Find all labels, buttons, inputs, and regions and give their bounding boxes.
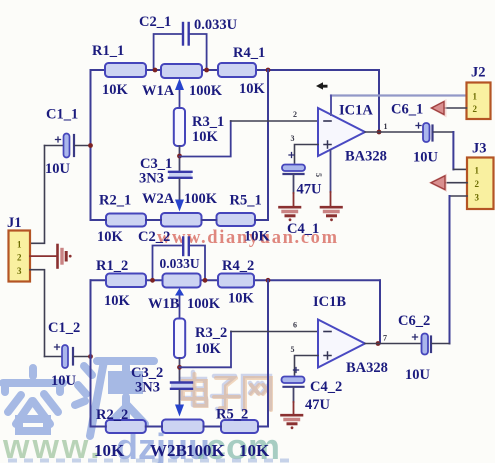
wire input bus channel 2	[90, 280, 92, 426]
svg-text:2: 2	[293, 110, 297, 119]
capacitor C4_2	[282, 368, 343, 414]
potentiometer W1B	[148, 274, 221, 319]
wire J2 pin2 stub	[443, 107, 467, 109]
node junction below R3_1	[177, 154, 182, 159]
wire row2 ch1	[91, 219, 269, 221]
node junction below R3_2	[177, 365, 182, 370]
wire IC1A output to C6_1	[365, 131, 423, 133]
wire row1 ch1	[91, 69, 380, 71]
svg-text:3N3: 3N3	[135, 380, 160, 396]
resistor R4_2	[218, 258, 255, 307]
svg-text:10K: 10K	[94, 441, 125, 460]
wire C3_2 to W2B wiper	[179, 390, 181, 405]
wire feedback vertical ch2	[379, 280, 381, 343]
svg-text:7: 7	[383, 334, 387, 343]
capacitor C2_2	[138, 229, 205, 280]
wire J1 pin3 to C1_2	[30, 270, 45, 357]
svg-text:6: 6	[293, 321, 297, 330]
wire input bus channel 1	[90, 70, 92, 220]
wire inverting input ch1	[180, 121, 319, 157]
ground under C4_1	[280, 207, 301, 221]
potentiometer W2B	[150, 405, 226, 461]
wire feedback column ch2	[267, 280, 269, 426]
node junction C1_1 bus	[88, 143, 93, 148]
svg-text:3: 3	[291, 134, 295, 143]
node junction row1 left	[153, 68, 158, 73]
wire IC1B output to C6_2	[365, 343, 422, 345]
resistor R2_1	[97, 193, 146, 246]
svg-text:W1B: W1B	[148, 296, 180, 312]
svg-text:5: 5	[314, 173, 323, 177]
node junction R4_1 feedback	[266, 68, 271, 73]
wire noninverting input ch2	[295, 356, 319, 376]
svg-text:W1A: W1A	[142, 83, 175, 99]
node junction C1_2 bus	[88, 354, 93, 359]
svg-text:C2_1: C2_1	[139, 14, 171, 30]
power port arrow J2 gnd	[430, 99, 447, 118]
svg-text:C4_1: C4_1	[287, 221, 319, 237]
svg-text:R5_1: R5_1	[230, 193, 262, 209]
resistor R3_1	[174, 108, 224, 146]
node junction IC1B output	[376, 341, 381, 346]
resistor R5_2	[216, 407, 270, 461]
op-amp IC1A	[318, 103, 387, 165]
wire R3_1 to junction and C3_1	[179, 146, 181, 170]
svg-text:3N3: 3N3	[139, 171, 164, 187]
svg-text:1: 1	[17, 240, 22, 250]
power port arrow J3 gnd	[429, 174, 448, 193]
svg-text:0.033U: 0.033U	[160, 256, 200, 271]
capacitor C3_1	[139, 156, 192, 187]
connector J2	[467, 65, 491, 120]
svg-text:10K: 10K	[195, 341, 222, 357]
potentiometer W1A	[142, 64, 223, 108]
svg-text:1: 1	[473, 92, 478, 102]
resistor R5_1	[217, 193, 271, 245]
svg-text:IC1B: IC1B	[313, 294, 346, 310]
wire feedback vertical ch1	[378, 70, 380, 132]
resistor R1_2	[96, 258, 146, 309]
resistor R1_1	[92, 43, 146, 98]
svg-text:5: 5	[291, 345, 295, 354]
svg-text:C4_2: C4_2	[310, 379, 342, 395]
svg-text:100K: 100K	[189, 83, 223, 99]
wire feedback column ch1	[267, 70, 269, 220]
svg-text:47U: 47U	[305, 397, 331, 413]
wire C4_1 to ground	[293, 175, 295, 207]
svg-text:2: 2	[473, 104, 478, 114]
capacitor C4_1	[282, 153, 322, 238]
svg-text:100K: 100K	[186, 441, 226, 460]
node junction row1 right	[204, 68, 209, 73]
svg-text:10K: 10K	[239, 441, 270, 460]
wire C4_2 to ground	[293, 387, 295, 414]
wire R3_2 to junction and C3_2	[179, 358, 181, 381]
svg-text:10K: 10K	[97, 229, 124, 245]
svg-text:W2B: W2B	[150, 441, 187, 460]
svg-text:10U: 10U	[51, 373, 77, 389]
svg-text:C2_2: C2_2	[138, 229, 170, 245]
svg-text:1: 1	[384, 122, 388, 131]
svg-text:10U: 10U	[405, 367, 431, 383]
cursor arrow	[316, 82, 328, 89]
resistor R3_2	[174, 319, 227, 359]
svg-text:J2: J2	[471, 65, 486, 81]
svg-text:10K: 10K	[104, 293, 131, 309]
node junction row1b left	[150, 278, 155, 283]
svg-text:10U: 10U	[45, 161, 71, 177]
wire row2 ch2	[91, 426, 269, 428]
svg-text:R5_2: R5_2	[216, 407, 248, 423]
wire J3 pin3 to C6_2	[450, 196, 468, 344]
wire row1 ch2	[91, 279, 381, 281]
svg-text:W2A: W2A	[142, 191, 175, 207]
svg-text:10K: 10K	[192, 129, 219, 145]
svg-text:R1_2: R1_2	[96, 258, 128, 274]
wire J1 pin1 to C1_1	[30, 146, 45, 244]
resistor R2_2	[94, 407, 146, 460]
wire C6_1 to J3 pin1	[434, 132, 468, 169]
svg-text:10U: 10U	[413, 150, 439, 166]
svg-text:2: 2	[475, 179, 480, 189]
connector J1	[7, 215, 30, 282]
wire J3 pin2 stub	[446, 182, 467, 184]
svg-text:2: 2	[17, 253, 22, 263]
svg-text:R4_2: R4_2	[222, 258, 254, 274]
svg-text:C6_1: C6_1	[391, 102, 423, 118]
capacitor C2_1	[139, 14, 238, 70]
svg-text:IC1A: IC1A	[339, 103, 373, 119]
capacitor C6_1	[391, 102, 439, 166]
svg-text:1: 1	[475, 166, 480, 176]
capacitor C1_2	[45, 320, 91, 389]
svg-text:100K: 100K	[184, 191, 218, 207]
wire noninverting input ch1	[295, 145, 319, 164]
svg-text:BA328: BA328	[345, 149, 387, 165]
ground under C4_2	[282, 415, 303, 429]
ground sideways at J1	[58, 245, 72, 268]
svg-text:C1_2: C1_2	[48, 320, 80, 336]
svg-text:R2_1: R2_1	[99, 193, 131, 209]
svg-text:10K: 10K	[239, 81, 266, 97]
svg-text:R3_1: R3_1	[192, 114, 224, 130]
svg-text:R2_2: R2_2	[96, 407, 128, 423]
wire inverting input ch2	[180, 332, 319, 368]
svg-text:BA328: BA328	[346, 360, 388, 376]
svg-text:J1: J1	[7, 215, 22, 231]
svg-text:0.033U: 0.033U	[194, 17, 238, 33]
resistor R4_1	[218, 45, 266, 97]
connector J3	[467, 141, 494, 210]
wire C3_1 to W2A wiper	[179, 179, 181, 199]
svg-text:C6_2: C6_2	[398, 313, 430, 329]
op-amp IC1B	[313, 294, 388, 376]
svg-text:47U: 47U	[297, 182, 323, 198]
svg-text:10K: 10K	[102, 82, 129, 98]
wire J1 pin2 to ground	[30, 255, 56, 257]
svg-text:J3: J3	[472, 141, 487, 157]
svg-text:R3_2: R3_2	[195, 325, 227, 341]
wire IC1A pin5 to ground	[330, 150, 332, 206]
svg-text:10K: 10K	[228, 291, 255, 307]
capacitor C1_1	[45, 107, 91, 178]
svg-text:3: 3	[17, 266, 22, 276]
capacitor C3_2	[131, 365, 192, 396]
svg-text:R1_1: R1_1	[92, 43, 124, 59]
svg-text:www.: www.	[2, 428, 103, 463]
ground under IC1A pin5	[321, 207, 342, 221]
node junction IC1A output	[377, 130, 382, 135]
node junction row1b right	[203, 278, 208, 283]
svg-text:10K: 10K	[244, 229, 271, 245]
svg-text:R4_1: R4_1	[233, 45, 265, 61]
svg-text:3: 3	[475, 193, 480, 203]
svg-text:C1_1: C1_1	[46, 107, 78, 123]
wire power line J2 pin1 to IC1A	[331, 96, 467, 116]
wire C6_2 to J3 column	[432, 343, 450, 345]
potentiometer W2A	[142, 191, 218, 227]
capacitor C6_2	[398, 313, 431, 383]
node junction R4_2 feedback	[266, 278, 271, 283]
svg-text:100K: 100K	[187, 296, 221, 312]
